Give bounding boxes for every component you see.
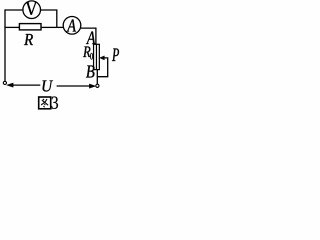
wire left vertical [4, 9, 6, 81]
right terminal [96, 84, 99, 87]
left terminal [3, 81, 6, 84]
node B label [86, 66, 95, 78]
wire junction to ammeter [57, 26, 63, 28]
caption digit 3 [52, 97, 58, 109]
ammeter A circle [63, 17, 81, 35]
wire top-left to voltmeter [5, 9, 23, 11]
U left arrowhead [7, 83, 14, 87]
caption glyph tu (figure) [39, 97, 51, 109]
wire ammeter to top-right corner down to rheostat [80, 28, 96, 44]
ammeter label A [67, 20, 77, 32]
wire voltmeter to top-right corner, down to junction [41, 10, 57, 27]
wire through rheostat [95, 44, 97, 69]
resistor R [19, 24, 41, 30]
wire wiper P return [97, 58, 107, 77]
resistor label R [24, 34, 33, 45]
wire rheostat bottom to terminal [96, 70, 98, 85]
wire R to junction [41, 26, 57, 28]
label U [43, 81, 54, 92]
wire U right segment [57, 85, 91, 87]
wire U left segment [12, 84, 40, 86]
voltmeter label V [26, 2, 37, 15]
rheostat R0 body [94, 44, 100, 69]
U right arrowhead [89, 84, 96, 88]
voltmeter V circle [23, 1, 41, 19]
wiper label P [112, 49, 119, 62]
node A label [86, 32, 96, 45]
rheostat label R0 [83, 47, 91, 58]
wiper arrowhead [100, 56, 105, 60]
wire R branch left [4, 26, 19, 28]
